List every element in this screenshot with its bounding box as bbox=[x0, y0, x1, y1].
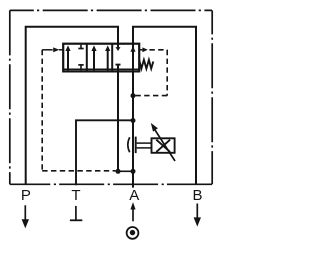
svg-text:B: B bbox=[192, 187, 202, 204]
svg-text:T: T bbox=[71, 187, 80, 204]
svg-text:P: P bbox=[21, 187, 31, 204]
svg-text:A: A bbox=[129, 187, 139, 204]
